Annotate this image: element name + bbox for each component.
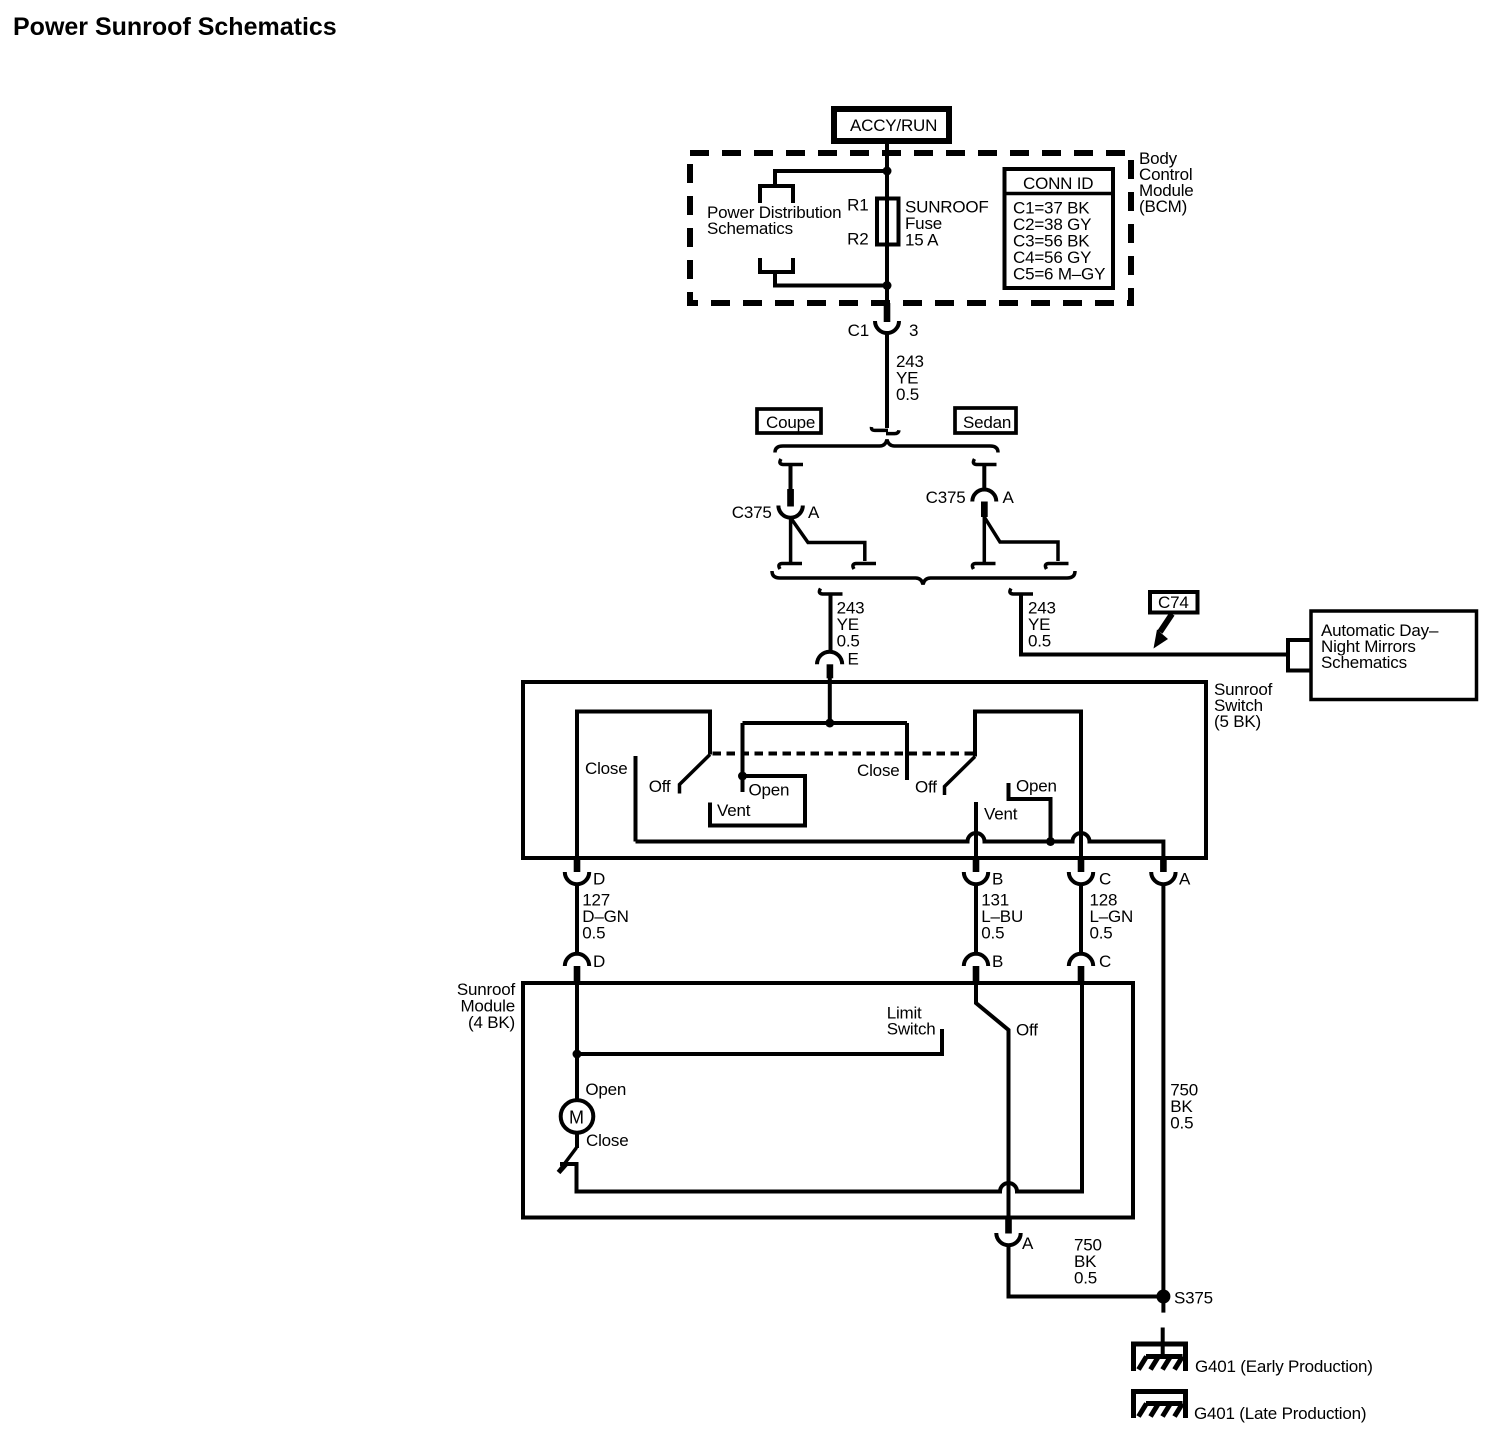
- coupe terminal bottom left: [779, 564, 802, 570]
- label Sunroof Module (4 BK): [457, 980, 516, 1032]
- wire stub to ground G401 early: [1161, 1328, 1165, 1356]
- label Sunroof Switch (5 BK): [1214, 680, 1273, 731]
- option box Coupe: [757, 409, 821, 433]
- svg-text:0.5: 0.5: [896, 385, 919, 404]
- label wire 243 YE 0.5: [896, 352, 924, 404]
- reference box Automatic Day-Night Mirrors Schematics: [1311, 611, 1477, 700]
- label Limit Switch: [887, 1003, 936, 1038]
- sedan branch wire: [982, 465, 986, 491]
- Sunroof Module box: [523, 983, 1133, 1218]
- Sunroof Switch box: [523, 682, 1206, 858]
- connector pin C (switch side): [1069, 858, 1111, 889]
- wire to limit switch: [577, 1029, 942, 1054]
- coupe branch wire: [789, 465, 793, 491]
- wire E into switch: [828, 676, 832, 684]
- svg-text:Open: Open: [1016, 776, 1057, 795]
- wire ACCY/RUN to fuse (main feed): [885, 141, 889, 305]
- power distribution bracket top: [760, 186, 793, 203]
- svg-text:Vent: Vent: [717, 801, 751, 820]
- motor close limit switch blade: [559, 1133, 578, 1173]
- wire E inside switch: [828, 682, 832, 723]
- svg-text:Open: Open: [585, 1080, 626, 1099]
- svg-text:Off: Off: [915, 778, 937, 797]
- svg-text:A: A: [808, 503, 820, 522]
- connector pin B (switch side): [964, 858, 1003, 889]
- connector pin C (module side): [1069, 952, 1111, 983]
- wire 131 L-BU 0.5: [974, 884, 978, 954]
- svg-text:CONN ID: CONN ID: [1023, 174, 1093, 193]
- connector pin D (module side): [565, 952, 605, 983]
- svg-text:D: D: [593, 870, 605, 889]
- right switch close contact: [905, 723, 909, 780]
- node E junction dot: [825, 719, 834, 728]
- bracket into mirrors schematic: [1288, 640, 1311, 671]
- sedan wire fork: [984, 517, 1058, 564]
- connector E at sunroof switch: [817, 652, 842, 679]
- svg-text:0.5: 0.5: [1074, 1269, 1097, 1288]
- wire motor return to pin C: [560, 983, 1082, 1192]
- wire branch from power distribution (bottom): [775, 272, 887, 286]
- right vent contact riser to pin B: [974, 802, 978, 858]
- label Power Distribution Schematics: [707, 203, 841, 238]
- svg-text:Vent: Vent: [984, 805, 1018, 824]
- label wire 750 BK 0.5 (right): [1170, 1081, 1198, 1133]
- left switch pivot arm from pin D: [577, 712, 710, 859]
- svg-text:A: A: [1179, 870, 1191, 889]
- sedan terminal bottom left: [972, 564, 995, 570]
- svg-text:15 A: 15 A: [905, 231, 939, 250]
- wire 243 YE 0.5 from C1: [885, 334, 889, 428]
- right switch blade to Off: [945, 757, 976, 796]
- svg-text:0.5: 0.5: [837, 632, 860, 651]
- brace split top: [775, 440, 998, 453]
- svg-text:C: C: [1099, 952, 1111, 971]
- svg-text:B: B: [992, 870, 1003, 889]
- svg-text:Close: Close: [857, 761, 899, 780]
- label wire 127 D-GN 0.5: [582, 891, 628, 943]
- sedan branch terminal top: [973, 459, 996, 465]
- connector pin A (switch side): [1151, 858, 1191, 889]
- svg-text:ACCY/RUN: ACCY/RUN: [850, 116, 937, 135]
- svg-text:(5 BK): (5 BK): [1214, 712, 1261, 731]
- node motor junction dot: [573, 1050, 582, 1059]
- svg-text:Sedan: Sedan: [963, 413, 1011, 432]
- wire through fuse: [885, 200, 889, 243]
- svg-text:Close: Close: [585, 759, 627, 778]
- label wire 131 L-BU 0.5: [981, 891, 1023, 943]
- svg-text:S375: S375: [1174, 1288, 1213, 1307]
- node bus junction dot: [1046, 837, 1055, 846]
- wire 128 L-GN 0.5: [1079, 884, 1083, 954]
- label wire 128 L-GN 0.5: [1090, 891, 1134, 943]
- svg-text:0.5: 0.5: [1170, 1113, 1193, 1132]
- coupe wire fork: [791, 518, 865, 564]
- svg-text:Off: Off: [649, 777, 671, 796]
- svg-text:C5=6 M–GY: C5=6 M–GY: [1013, 265, 1105, 284]
- ground G401 (Late Production): [1134, 1392, 1367, 1424]
- wire 127 D-GN 0.5: [575, 884, 579, 954]
- left switch open contact riser: [741, 723, 745, 792]
- svg-text:Switch: Switch: [887, 1020, 936, 1039]
- svg-text:R2: R2: [847, 230, 868, 249]
- connector callout C74: [1150, 592, 1198, 613]
- wire pin B through off switch: [976, 983, 1009, 1218]
- left switch blade to Off: [680, 755, 711, 794]
- coupe branch terminal top: [780, 459, 803, 465]
- node junction dot top: [883, 167, 892, 176]
- power feed box ACCY/RUN: [834, 109, 949, 141]
- svg-text:Schematics: Schematics: [1321, 653, 1407, 672]
- Body Control Module dashed box: [690, 153, 1131, 303]
- connector C375 pin A (coupe): [732, 489, 820, 522]
- wire branch to power distribution (top): [775, 171, 887, 185]
- CONN ID table: [1005, 169, 1114, 288]
- wire 750 BK 0.5 to S375: [1009, 1245, 1164, 1296]
- label wire 243 YE 0.5 E: [837, 599, 865, 669]
- svg-text:C375: C375: [926, 488, 966, 507]
- left close contact to common bus: [634, 756, 638, 842]
- svg-text:G401 (Early Production): G401 (Early Production): [1195, 1357, 1373, 1376]
- wire S375 down: [1161, 1297, 1165, 1313]
- brace merge bottom: [772, 571, 1075, 585]
- splice S375: [1156, 1288, 1213, 1307]
- sedan terminal bottom right: [1045, 564, 1068, 570]
- connector pin D (switch side): [565, 858, 605, 889]
- connector C375 pin A (sedan): [926, 488, 1015, 517]
- svg-text:C375: C375: [732, 503, 772, 522]
- connector C1 pin 3: [848, 303, 919, 340]
- wire 243 YE 0.5 to mirrors: [1021, 594, 1288, 655]
- svg-text:Coupe: Coupe: [766, 413, 815, 432]
- svg-text:Close: Close: [586, 1131, 628, 1150]
- svg-text:0.5: 0.5: [981, 923, 1004, 942]
- right open contact with drop to bus: [1009, 783, 1051, 842]
- svg-text:0.5: 0.5: [1028, 632, 1051, 651]
- svg-text:C1: C1: [848, 321, 869, 340]
- wire end tick above brace: [871, 427, 899, 434]
- right switch pivot arm from pin C: [975, 712, 1081, 859]
- common bus to pin A with crossovers: [636, 833, 1164, 858]
- svg-text:A: A: [1022, 1234, 1034, 1253]
- mirrors feed terminal: [1010, 589, 1033, 595]
- svg-text:Power Sunroof Schematics: Power Sunroof Schematics: [13, 13, 337, 41]
- power distribution bracket bottom: [760, 258, 793, 272]
- svg-text:Schematics: Schematics: [707, 219, 793, 238]
- ground G401 (Early Production): [1134, 1344, 1373, 1376]
- wire pin D into module: [575, 983, 579, 1054]
- coupe terminal bottom right: [853, 564, 876, 570]
- svg-text:G401 (Late Production): G401 (Late Production): [1194, 1404, 1366, 1423]
- left vent contact loop: [710, 776, 805, 826]
- svg-text:0.5: 0.5: [582, 923, 605, 942]
- motor M: [561, 1054, 594, 1133]
- wire 750 BK 0.5 from pin A: [1161, 884, 1165, 1296]
- svg-text:E: E: [848, 649, 859, 668]
- svg-text:0.5: 0.5: [1090, 923, 1113, 942]
- svg-text:M: M: [569, 1108, 584, 1128]
- option box Sedan: [955, 408, 1016, 433]
- svg-text:(BCM): (BCM): [1139, 197, 1187, 216]
- connector pin A (module bottom): [996, 1218, 1034, 1254]
- svg-text:3: 3: [909, 321, 918, 340]
- svg-text:B: B: [992, 952, 1003, 971]
- svg-text:C: C: [1099, 870, 1111, 889]
- node open/vent junction dot (left): [738, 772, 747, 781]
- svg-text:(4 BK): (4 BK): [468, 1013, 515, 1032]
- switch feed terminal: [819, 589, 842, 595]
- svg-text:R1: R1: [847, 196, 868, 215]
- mechanical linkage dashed: [713, 752, 975, 756]
- wire 243 YE 0.5 E to sunroof switch: [829, 594, 833, 653]
- label SUNROOF Fuse 15 A: [905, 198, 989, 250]
- svg-text:Off: Off: [1016, 1021, 1038, 1040]
- svg-text:D: D: [593, 952, 605, 971]
- connector pin B (module side): [964, 952, 1003, 983]
- label wire 750 BK 0.5 (bottom): [1074, 1235, 1102, 1287]
- svg-text:C74: C74: [1158, 593, 1189, 612]
- label Body Control Module (BCM): [1139, 149, 1194, 216]
- fuse SUNROOF 15A body: [877, 199, 899, 245]
- arrow C74 to wire: [1154, 614, 1173, 649]
- label wire 243 YE 0.5 (right): [1028, 599, 1056, 651]
- node junction dot bottom: [883, 281, 892, 290]
- svg-text:A: A: [1003, 488, 1015, 507]
- switch feed rail: [743, 721, 908, 725]
- svg-text:Open: Open: [749, 781, 790, 800]
